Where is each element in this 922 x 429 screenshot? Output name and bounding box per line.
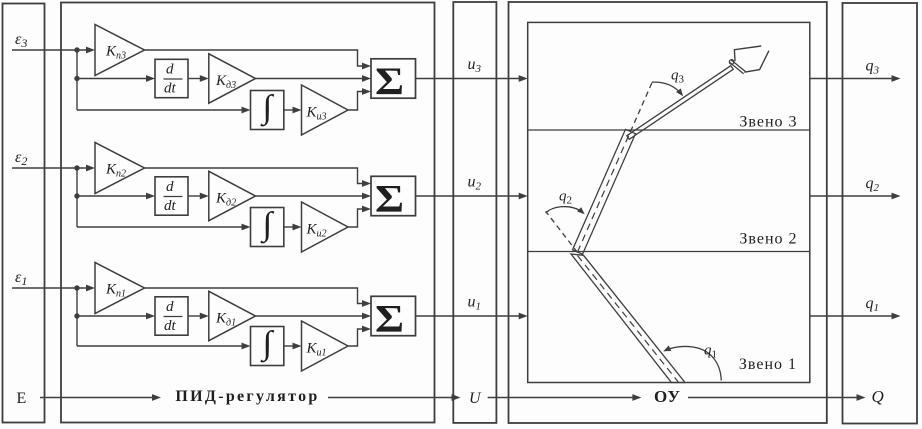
- wire epsilon3 input: [12, 49, 88, 51]
- amplifier Kd2: [209, 171, 256, 220]
- wrist pivot circle: [729, 60, 734, 65]
- junction at Kp3 input: [74, 47, 79, 52]
- wire q3 plant output: [810, 78, 893, 80]
- integrator 3: [251, 91, 284, 130]
- svg-text:dt: dt: [164, 318, 177, 334]
- wire d/dt3 to Kd3: [188, 78, 201, 80]
- wire PID to U: [328, 397, 453, 399]
- svg-text:dt: dt: [164, 81, 177, 97]
- divider line zveno3/zveno2: [528, 129, 810, 131]
- box: output vector Q column: [843, 3, 918, 424]
- angle arc q2: [546, 207, 582, 213]
- wire d/dt2 to Kd2: [188, 195, 201, 197]
- wire to differentiator 2: [77, 195, 148, 197]
- svg-text:Звено 1: Звено 1: [739, 356, 797, 373]
- link 1 body: [571, 254, 685, 383]
- integrator 2: [251, 208, 284, 247]
- wire u1 from summator to plant: [416, 315, 521, 317]
- gripper: [734, 46, 769, 72]
- svg-text:E: E: [17, 390, 27, 407]
- box: manipulator drawing frame: [528, 22, 810, 382]
- differentiator d/dt 2: [155, 177, 188, 215]
- link 3 body: [627, 66, 733, 140]
- wire junction vertical: [76, 288, 78, 346]
- wire d/dt1 to Kd1: [188, 315, 201, 317]
- wire to integrator 2: [77, 226, 243, 228]
- integrator 1: [251, 327, 284, 366]
- svg-text:d: d: [166, 179, 174, 195]
- wire Kp1 output to summator: [145, 288, 364, 304]
- differentiator d/dt 1: [155, 297, 188, 335]
- link 1 centerline dashed: [578, 256, 679, 383]
- wire u3 from summator to plant: [416, 78, 521, 80]
- svg-text:Q: Q: [872, 387, 884, 406]
- angle arc q1: [666, 346, 721, 380]
- wire Kp2 output to summator: [145, 168, 364, 184]
- summator Sigma2: [371, 176, 416, 215]
- junction at Kp2 input: [74, 165, 79, 170]
- svg-text:Звено 2: Звено 2: [739, 231, 797, 248]
- amplifier Ki3: [302, 85, 349, 135]
- link 1 axis extension dashed: [546, 211, 578, 252]
- wire Kp3 output to summator: [145, 50, 364, 66]
- wire junction vertical: [76, 168, 78, 227]
- summator Sigma3: [371, 59, 416, 98]
- wire integrator2 to Ki2: [284, 226, 294, 228]
- wire Ki1 output to summator: [348, 329, 363, 346]
- junction at d/dt2 branch: [74, 193, 79, 198]
- wire Ki2 output to summator: [348, 209, 363, 227]
- wire OU to Q: [688, 397, 858, 399]
- svg-text:d: d: [166, 62, 174, 78]
- wire q1 plant output: [810, 315, 893, 317]
- amplifier Kp3: [95, 25, 145, 76]
- divider line zveno2/zveno1: [528, 251, 810, 253]
- wire Ki3 output to summator: [348, 92, 363, 111]
- wire epsilon1 input: [12, 287, 88, 289]
- junction at d/dt1 branch: [74, 313, 79, 318]
- wire Kd1 output to summator: [256, 315, 364, 317]
- wire to integrator 1: [77, 345, 243, 347]
- wire epsilon2 input: [12, 167, 88, 169]
- wrist bar: [731, 60, 746, 72]
- differentiator d/dt 3: [155, 59, 188, 97]
- amplifier Kd1: [209, 291, 256, 340]
- amplifier Kp2: [95, 143, 145, 194]
- amplifier Ki2: [302, 202, 349, 252]
- wire to differentiator 1: [77, 315, 148, 317]
- wire E to PID: [40, 397, 153, 399]
- svg-text:U: U: [469, 390, 482, 407]
- svg-text:ОУ: ОУ: [654, 387, 681, 406]
- svg-text:ПИД-регулятор: ПИД-регулятор: [175, 388, 319, 405]
- box: plant OU block: [509, 2, 827, 423]
- svg-text:d: d: [166, 299, 174, 315]
- junction at d/dt3 branch: [74, 76, 79, 81]
- wire integrator3 to Ki3: [284, 109, 294, 111]
- wire q2 plant output: [810, 195, 893, 197]
- wire to integrator 3: [77, 109, 243, 111]
- link 2 centerline dashed: [578, 132, 631, 253]
- amplifier Kd3: [209, 54, 256, 103]
- wire Kd3 output to summator: [256, 78, 364, 80]
- wire junction vertical: [76, 50, 78, 110]
- amplifier Kp1: [95, 263, 145, 314]
- wire Kd2 output to summator: [256, 195, 364, 197]
- box: input column E: [3, 4, 45, 423]
- box: control vector U column: [453, 2, 496, 423]
- link 2 body: [573, 129, 636, 254]
- svg-text:dt: dt: [164, 198, 177, 214]
- amplifier Ki1: [302, 321, 349, 371]
- svg-text:Звено 3: Звено 3: [739, 113, 797, 130]
- svg-text:Σ: Σ: [375, 60, 404, 103]
- wire U to OU: [488, 397, 634, 399]
- wire integrator1 to Ki1: [284, 345, 294, 347]
- junction at Kp1 input: [74, 285, 79, 290]
- svg-text:Σ: Σ: [375, 178, 404, 221]
- svg-text:Σ: Σ: [375, 298, 404, 341]
- box: PID controller block: [61, 3, 435, 423]
- summator Sigma1: [371, 296, 416, 335]
- angle arc q3: [652, 82, 681, 93]
- wire to differentiator 3: [77, 78, 148, 80]
- wire u2 from summator to plant: [416, 195, 521, 197]
- link 2 axis extension dashed: [631, 79, 654, 131]
